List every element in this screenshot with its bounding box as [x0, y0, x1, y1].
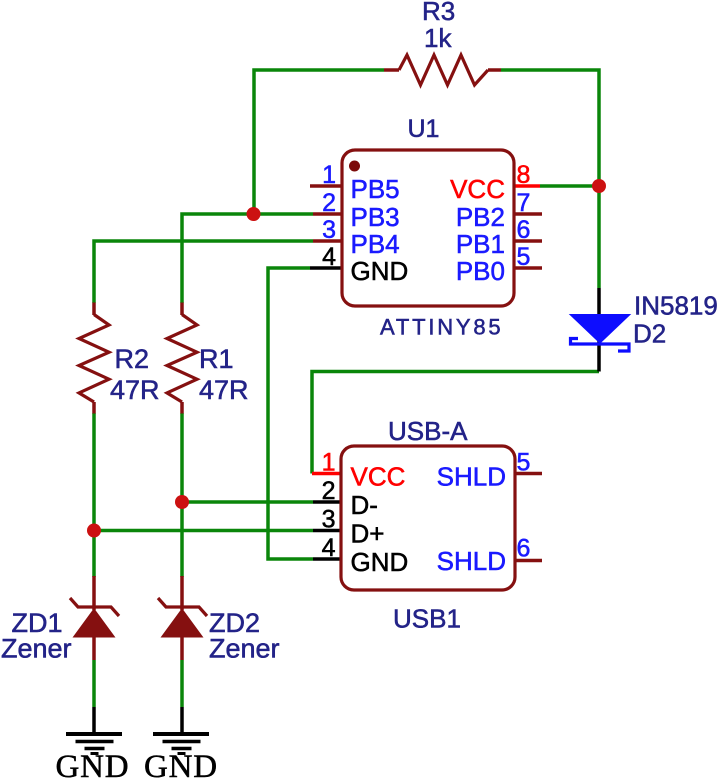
svg-text:5: 5: [517, 243, 531, 271]
svg-text:SHLD: SHLD: [437, 462, 506, 492]
svg-text:PB1: PB1: [456, 229, 505, 259]
svg-text:7: 7: [517, 189, 531, 217]
svg-text:Zener: Zener: [1, 634, 72, 664]
svg-text:VCC: VCC: [450, 174, 505, 204]
svg-text:47R: 47R: [199, 375, 249, 405]
svg-text:1k: 1k: [424, 23, 452, 53]
svg-text:PB0: PB0: [456, 256, 505, 286]
svg-text:USB1: USB1: [393, 604, 461, 634]
svg-text:3: 3: [322, 216, 336, 244]
svg-text:2: 2: [322, 477, 336, 505]
svg-text:IN5819: IN5819: [634, 291, 718, 321]
svg-text:6: 6: [517, 535, 531, 563]
svg-text:8: 8: [517, 161, 531, 189]
svg-text:USB-A: USB-A: [388, 416, 468, 446]
svg-text:GND: GND: [144, 749, 218, 784]
svg-text:GND: GND: [351, 256, 409, 286]
svg-text:6: 6: [517, 216, 531, 244]
svg-text:1: 1: [322, 161, 336, 189]
svg-text:SHLD: SHLD: [437, 546, 506, 576]
svg-text:2: 2: [322, 189, 336, 217]
svg-text:5: 5: [517, 449, 531, 477]
svg-text:Zener: Zener: [209, 634, 280, 664]
svg-text:PB4: PB4: [351, 229, 400, 259]
svg-text:PB5: PB5: [351, 174, 400, 204]
svg-text:ATTINY85: ATTINY85: [380, 315, 503, 340]
svg-text:PB2: PB2: [456, 202, 505, 232]
svg-text:R1: R1: [199, 344, 234, 374]
svg-text:4: 4: [322, 243, 336, 271]
svg-text:47R: 47R: [110, 375, 160, 405]
svg-text:3: 3: [322, 506, 336, 534]
svg-text:1: 1: [322, 449, 336, 477]
svg-text:GND: GND: [351, 547, 409, 577]
svg-text:D-: D-: [351, 490, 378, 520]
svg-text:D+: D+: [351, 519, 385, 549]
svg-text:U1: U1: [408, 115, 440, 143]
svg-text:R2: R2: [115, 344, 150, 374]
svg-text:VCC: VCC: [351, 462, 406, 492]
svg-text:PB3: PB3: [351, 202, 400, 232]
svg-text:4: 4: [322, 534, 336, 562]
svg-text:GND: GND: [56, 749, 130, 784]
svg-text:D2: D2: [633, 319, 666, 349]
